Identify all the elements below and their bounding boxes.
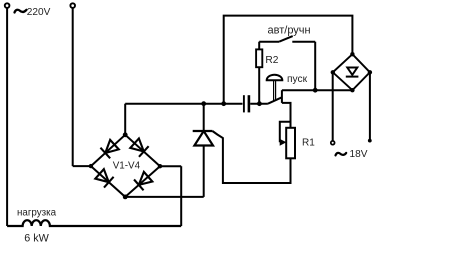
diode V4 (bottom-right edge) — [134, 171, 153, 190]
svg-text:нагрузка: нагрузка — [17, 208, 57, 219]
wire авт/ручн riser down — [314, 42, 316, 90]
bridge2 inner diode triangle — [347, 68, 357, 75]
thyristor V5 cathode wire — [203, 146, 205, 197]
wire bridge right vertex link — [160, 165, 181, 167]
junction dot top-rail riser on bus — [221, 101, 226, 106]
switch пуск arm — [268, 97, 282, 103]
svg-text:220V: 220V — [27, 7, 51, 18]
terminal X2 (220V right) — [70, 3, 75, 8]
wire bridge bottom to thyristor cathode — [125, 196, 204, 198]
wire load riser up to bridge right link — [180, 166, 182, 226]
junction dot bridge top vertex — [123, 132, 128, 137]
wire pusk output to bridge2 bottom — [282, 89, 353, 91]
bus wire (anode bus) — [125, 103, 242, 105]
svg-text:пуск: пуск — [287, 74, 308, 85]
diode V1 (top-left edge) — [100, 139, 119, 158]
capacitor C1 left plate — [243, 95, 245, 112]
wire cap to pusk pivot — [250, 103, 268, 105]
svg-text:18V: 18V — [350, 149, 368, 160]
junction dot bridge2 right — [368, 70, 372, 74]
inductor load (3 humps) — [7, 220, 181, 226]
junction dot bridge bottom vertex — [123, 195, 128, 200]
switch авт/ручн arm — [279, 36, 293, 42]
junction dot bridge2 top — [350, 52, 354, 56]
svg-text:V1-V4: V1-V4 — [113, 161, 141, 172]
resistor R2 body — [256, 49, 262, 67]
wire R1 top connection — [282, 103, 291, 128]
svg-text:авт/ручн: авт/ручн — [268, 24, 311, 36]
diode V3 (bottom-left edge) — [95, 169, 114, 188]
terminal X1 (220V left) — [5, 3, 10, 8]
bridge2 diamond (18V rectifier) — [333, 54, 370, 90]
thyristor V5 triangle — [194, 131, 213, 146]
R1 wiper arrowhead — [280, 139, 287, 146]
R1 wiper tap wire — [280, 122, 291, 143]
AC tilde near 18V — [336, 153, 347, 156]
junction dot bridge2 bottom — [350, 88, 354, 92]
wire bridge top vertex to bus — [124, 104, 126, 135]
terminal 18V right (filled) — [368, 139, 372, 143]
wire X2 down — [72, 8, 74, 166]
top rail riser + rail + riser to bridge2 — [224, 16, 353, 104]
junction dot thyristor anode on bus — [201, 101, 206, 106]
button пуск dome — [267, 75, 283, 80]
wire X2 to bridge left vertex — [73, 165, 91, 167]
junction dot bridge left vertex — [89, 164, 93, 168]
diode V2 (top-right edge) — [130, 138, 149, 157]
button пуск stem — [273, 80, 275, 101]
wire bridge2 left vertex down to 18V terminal — [332, 72, 334, 141]
bridge V1-V4 diamond — [91, 135, 160, 197]
junction dot bridge right vertex — [158, 164, 162, 168]
thyristor V5 top bar — [193, 130, 213, 132]
switch авт/ручн right wire — [292, 41, 315, 43]
bridge2 inner diode bar — [346, 76, 359, 78]
wire X1 down to load — [6, 8, 8, 226]
switch авт/ручн left wire — [259, 41, 279, 43]
svg-text:R2: R2 — [265, 55, 278, 66]
svg-text:R1: R1 — [302, 137, 315, 148]
wire R2 top — [258, 42, 260, 50]
wire R2 bottom — [258, 67, 260, 104]
junction dot bridge2 left — [331, 70, 335, 74]
junction dot авт/ручн riser — [313, 88, 318, 93]
capacitor C1 right plate — [248, 95, 251, 112]
switch пуск fixed contact — [281, 90, 283, 103]
wire bridge2 right vertex down to 18V terminal — [369, 72, 371, 139]
svg-text:6 kW: 6 kW — [24, 232, 49, 244]
terminal 18V left — [331, 141, 335, 145]
AC tilde near 220V — [15, 10, 27, 13]
resistor R1 body — [286, 128, 295, 159]
thyristor V5 anode wire — [203, 104, 205, 131]
thyristor V5 gate wire to R1 bottom — [212, 131, 290, 183]
junction dot R2 bottom — [257, 101, 262, 106]
